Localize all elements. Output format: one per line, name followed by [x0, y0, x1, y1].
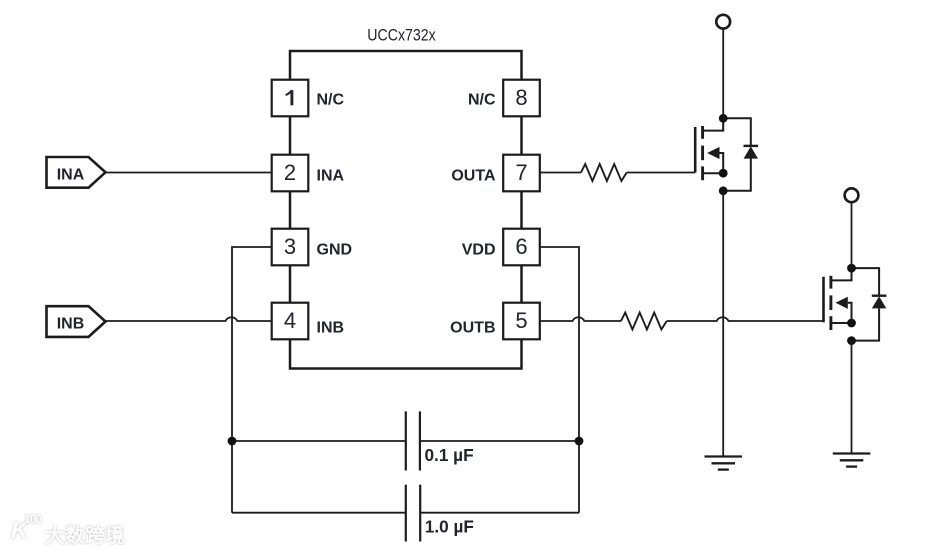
svg-text:INB: INB: [57, 316, 85, 333]
svg-text:INA: INA: [317, 167, 345, 184]
body diode D2 of Q2: [852, 268, 887, 341]
wire GND rail to capacitor C2: [232, 512, 406, 514]
svg-text:1.0 µF: 1.0 µF: [425, 517, 474, 537]
terminal circle (Q1 drain supply): [716, 15, 730, 29]
svg-text:7: 7: [515, 160, 527, 185]
svg-text:INA: INA: [57, 167, 85, 184]
svg-text:6: 6: [515, 234, 527, 259]
svg-text:GND: GND: [317, 241, 353, 258]
input flag INA: [47, 157, 106, 188]
node: GND rail / C1 junction: [228, 437, 237, 446]
pin 7: [503, 155, 540, 192]
wire INB to pin 4 with hop over GND line: [106, 317, 272, 321]
node: Q1 drain junction: [719, 114, 728, 123]
transistor Q1 (N-channel MOSFET): [695, 118, 723, 180]
node: VDD rail / C1 junction: [575, 437, 584, 446]
svg-text:5: 5: [515, 308, 527, 333]
pin 8: [503, 80, 540, 117]
svg-text:N/C: N/C: [468, 91, 496, 108]
svg-text:UCCx732x: UCCx732x: [367, 27, 436, 45]
wire INA to pin 2: [106, 172, 272, 174]
svg-text:N/C: N/C: [317, 91, 345, 108]
watermark logo and text: [8, 512, 208, 546]
svg-text:8: 8: [515, 85, 527, 110]
wire Q1 drain to supply terminal: [722, 29, 724, 118]
wire capacitor C2 to VDD rail: [420, 512, 579, 514]
wire Q2 source down to ground: [851, 341, 853, 454]
op-amp U1 IC body UCCx732x: [290, 27, 522, 369]
pin 2: [272, 155, 309, 192]
wire pin 7 to resistor R1: [540, 172, 581, 174]
wire resistor R1 to Q1 gate: [627, 172, 696, 174]
svg-text:4: 4: [284, 308, 296, 333]
ground (below Q1): [705, 457, 743, 470]
pin 6: [503, 229, 540, 266]
wire Q2 drain to supply terminal: [851, 203, 853, 269]
capacitor C1: [406, 411, 474, 470]
body diode D1 of Q1: [723, 118, 758, 191]
pin 4: [272, 303, 309, 340]
svg-text:OUTB: OUTB: [450, 319, 495, 336]
wire Q1 source down to ground: [722, 191, 724, 457]
svg-text:0.1 µF: 0.1 µF: [425, 445, 474, 465]
resistor R1: [581, 164, 627, 181]
node: Q1 source junction: [719, 169, 728, 178]
node: Q1 diode junction: [719, 186, 728, 195]
terminal circle (Q2 drain supply): [845, 188, 859, 202]
svg-text:2: 2: [284, 160, 296, 185]
pin 1: [272, 80, 309, 117]
input flag INB: [47, 306, 106, 337]
svg-text:INB: INB: [317, 319, 345, 336]
svg-text:VDD: VDD: [462, 241, 496, 258]
node: Q2 drain junction: [847, 264, 856, 273]
pin 3: [272, 229, 309, 266]
svg-text:3: 3: [284, 234, 296, 259]
wire VDD net: pin 6 right then down to capacitors: [540, 247, 579, 513]
node: Q2 source junction: [847, 319, 856, 328]
wire capacitor C1 to VDD rail: [420, 440, 579, 442]
svg-text:OUTA: OUTA: [451, 167, 496, 184]
resistor R2: [621, 313, 667, 330]
capacitor C2: [406, 485, 474, 542]
pin 5: [503, 303, 540, 340]
wire GND rail to capacitor C1: [232, 440, 406, 442]
wire GND net: pin 3 left then down to capacitors: [232, 247, 272, 513]
wire pin 5 OUTB to resistor R2 with hop over VDD line: [540, 317, 621, 321]
node: Q2 diode junction: [847, 336, 856, 345]
transistor Q2 (N-channel MOSFET): [824, 268, 852, 330]
wire resistor R2 to Q2 gate with hop over Q1 source line: [667, 317, 824, 321]
ground (below Q2): [833, 454, 871, 467]
